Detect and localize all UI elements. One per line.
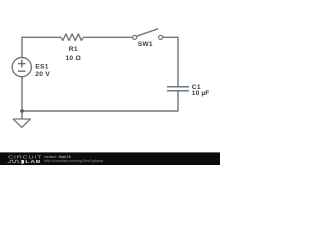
wire switch to top-right corner down to capacitor [163, 37, 178, 86]
wire top-left: source top to top rail corner to resistor [22, 37, 61, 57]
svg-text:20 V: 20 V [35, 71, 50, 78]
svg-text:10 Ω: 10 Ω [65, 55, 81, 62]
CircuitLab logo CIRCUIT [8, 156, 42, 161]
label C1 [192, 84, 201, 91]
capacitor C1 top plate [167, 86, 189, 88]
label 10 Ω [65, 55, 81, 62]
label R1 [69, 46, 78, 53]
label 20 V [35, 71, 50, 78]
switch SW1 left terminal [133, 35, 137, 39]
svg-text:ES1: ES1 [35, 64, 48, 71]
wire resistor to switch [83, 36, 132, 38]
CircuitLab logo waveform [8, 160, 20, 162]
svg-text:SW1: SW1 [138, 41, 153, 48]
label 10 µF [192, 90, 210, 97]
label SW1 [138, 41, 153, 48]
wire capacitor bottom to bottom-right corner [22, 92, 178, 112]
switch SW1 right terminal [159, 35, 163, 39]
capacitor C1 bottom plate [167, 90, 189, 92]
watermark bar [0, 152, 220, 165]
resistor R1 [61, 34, 83, 41]
svg-text:created : final 19: created : final 19 [44, 155, 71, 159]
junction node dot [20, 109, 24, 113]
watermark text line 1 [44, 155, 71, 159]
switch SW1 lever [137, 29, 159, 37]
ground [13, 119, 30, 127]
voltage source ES1 [12, 58, 31, 77]
wire source bottom to ground [21, 77, 23, 119]
label ES1 [35, 64, 48, 71]
CircuitLab logo LAB [21, 160, 42, 165]
svg-text:10 µF: 10 µF [192, 90, 210, 97]
svg-text:R1: R1 [69, 46, 78, 53]
watermark text line 2 [44, 159, 103, 163]
svg-text:http://circuitlab.com/c/g34vs7: http://circuitlab.com/c/g34vs7cpkaap [44, 159, 103, 163]
svg-text:▮LAB: ▮LAB [21, 160, 42, 165]
